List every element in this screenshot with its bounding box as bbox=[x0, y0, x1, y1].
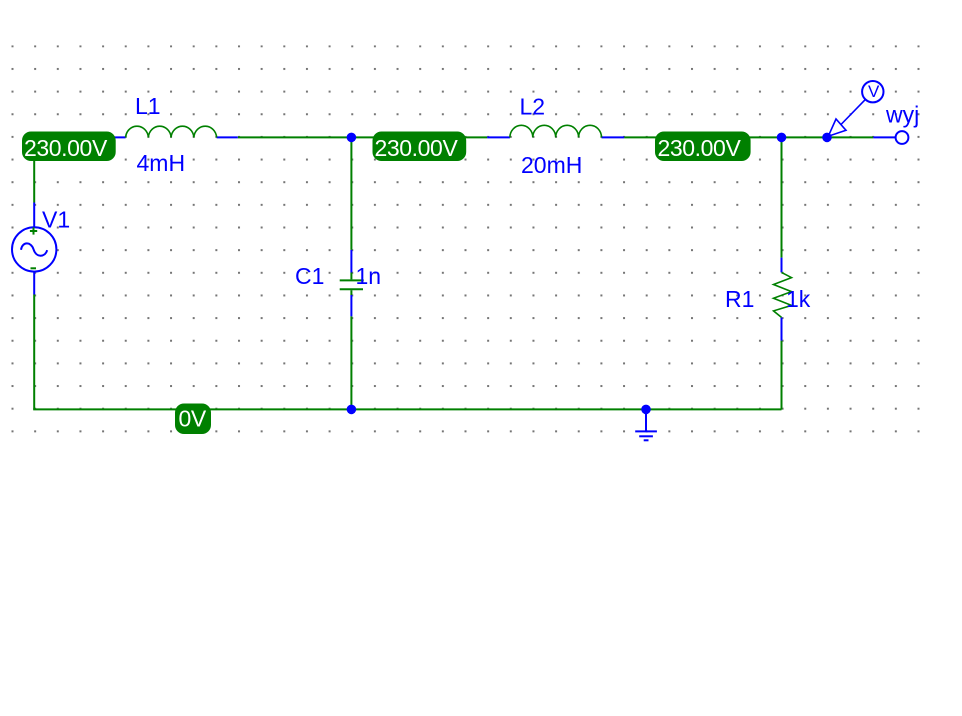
svg-text:V: V bbox=[868, 82, 880, 101]
junction node C1 bottom bbox=[347, 405, 357, 415]
wire R1 branch lower bbox=[781, 341, 783, 410]
svg-text:wyj: wyj bbox=[885, 102, 919, 128]
voltage label 230.00V node 1 bbox=[22, 132, 116, 162]
wire left vertical from label to V1 bbox=[33, 137, 35, 202]
svg-text:0V: 0V bbox=[179, 406, 207, 432]
junction node R1 top bbox=[777, 133, 787, 143]
svg-text:L2: L2 bbox=[520, 94, 546, 120]
junction node ground bbox=[641, 405, 651, 415]
ground bbox=[635, 409, 657, 440]
junction node probe tap bbox=[822, 133, 832, 143]
voltage label 0V bbox=[175, 404, 211, 435]
inductor L2 bbox=[487, 125, 624, 137]
junction node C1 top bbox=[347, 133, 357, 143]
svg-text:1k: 1k bbox=[786, 286, 811, 312]
voltage source V1 bbox=[12, 203, 56, 295]
svg-text:1n: 1n bbox=[356, 263, 382, 289]
svg-text:L1: L1 bbox=[135, 93, 161, 119]
wire R1 branch upper bbox=[781, 137, 783, 257]
wire left vertical from V1 to bottom bbox=[33, 295, 35, 410]
wire top from L1 to L2 bbox=[238, 136, 487, 138]
svg-text:20mH: 20mH bbox=[521, 152, 582, 178]
output terminal wyj bbox=[896, 131, 909, 144]
wire bottom bbox=[33, 408, 781, 410]
svg-text:230.00V: 230.00V bbox=[375, 135, 459, 161]
wire C1 branch upper bbox=[350, 137, 352, 250]
wire top from L2 to probe node bbox=[624, 136, 873, 138]
svg-text:230.00V: 230.00V bbox=[24, 135, 108, 161]
wire top from V1 node to L1 (hidden under label) bbox=[34, 136, 103, 138]
voltage label 230.00V node 2 bbox=[373, 132, 467, 162]
svg-text:4mH: 4mH bbox=[137, 150, 186, 176]
capacitor C1 bbox=[340, 250, 364, 316]
svg-text:R1: R1 bbox=[725, 286, 754, 312]
svg-text:230.00V: 230.00V bbox=[658, 135, 742, 161]
wire blue stub to output terminal bbox=[873, 136, 895, 138]
voltmeter probe bbox=[828, 81, 883, 136]
svg-text:C1: C1 bbox=[295, 263, 324, 289]
wire C1 branch lower bbox=[350, 316, 352, 409]
inductor L1 bbox=[103, 126, 238, 137]
resistor R1 bbox=[774, 258, 792, 341]
svg-text:V1: V1 bbox=[42, 207, 70, 233]
voltage label 230.00V node 3 bbox=[655, 132, 751, 162]
